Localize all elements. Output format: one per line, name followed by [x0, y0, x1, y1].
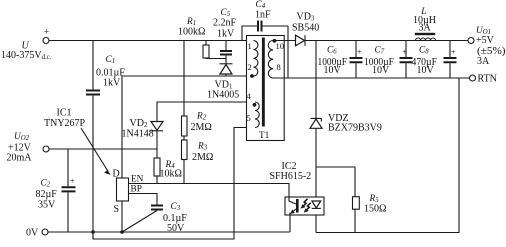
node S/C3 junction	[120, 230, 124, 234]
terminal RTN	[470, 74, 497, 85]
inductor L	[413, 7, 436, 41]
svg-text:+5V: +5V	[476, 35, 495, 46]
terminal U input +	[1, 28, 52, 62]
IC IC1 TNY267P	[44, 108, 144, 233]
wire primary top rail	[49, 40, 254, 42]
optocoupler IC2 SFH615-2	[270, 161, 325, 232]
capacitor C3	[122, 202, 187, 234]
resistor R4	[154, 158, 182, 184]
svg-text:100kΩ: 100kΩ	[178, 27, 205, 38]
svg-text:10V: 10V	[324, 65, 342, 76]
wire secondary bottom loop	[316, 78, 459, 233]
capacitor C4	[242, 0, 288, 78]
wire secondary top	[273, 40, 468, 42]
svg-text:10kΩ: 10kΩ	[160, 169, 182, 180]
terminal UO2 +12V	[7, 132, 50, 164]
svg-text:8: 8	[277, 62, 281, 72]
diode VD2	[122, 118, 164, 158]
svg-text:+: +	[44, 28, 49, 38]
svg-text:82µF: 82µF	[36, 189, 58, 200]
svg-text:2.2nF: 2.2nF	[213, 18, 237, 29]
svg-text:3A: 3A	[419, 23, 432, 34]
diode VD3	[292, 12, 319, 46]
diode VD1	[207, 64, 239, 101]
capacitor C8	[412, 41, 457, 79]
svg-text:SB540: SB540	[292, 23, 319, 34]
svg-text:10: 10	[276, 41, 285, 51]
svg-text:2: 2	[248, 62, 252, 72]
capacitor C5	[213, 8, 237, 64]
wire drain line	[122, 76, 254, 178]
svg-text:D: D	[113, 168, 120, 179]
svg-text:+: +	[402, 47, 407, 57]
wire VDZ to R5	[316, 167, 355, 197]
terminal UO1 +5V	[468, 26, 506, 67]
wire bias pin4 line	[157, 102, 255, 122]
svg-text:RTN: RTN	[478, 74, 497, 85]
capacitor C2	[36, 149, 76, 232]
svg-text:S: S	[114, 204, 120, 215]
svg-text:2MΩ: 2MΩ	[192, 152, 213, 163]
svg-text:1kV: 1kV	[217, 29, 235, 40]
svg-text:2MΩ: 2MΩ	[191, 122, 212, 133]
resistor R5	[353, 194, 387, 233]
node C1/loop junction	[91, 230, 95, 234]
svg-text:20mA: 20mA	[7, 153, 33, 164]
svg-text:3A: 3A	[477, 56, 490, 67]
svg-text:T1: T1	[259, 131, 270, 141]
zener VDZ	[310, 41, 382, 233]
wire +12V rail	[49, 148, 157, 150]
svg-text:SFH615-2: SFH615-2	[270, 171, 312, 182]
svg-text:150Ω: 150Ω	[364, 204, 386, 215]
svg-text:IC1: IC1	[57, 108, 72, 119]
wire EN line	[129, 184, 290, 198]
transformer T1	[247, 36, 285, 142]
svg-text:+: +	[451, 47, 456, 57]
resistor R1	[178, 17, 226, 59]
capacitor C1	[86, 41, 125, 240]
wire RTN rail	[273, 77, 470, 79]
svg-text:5: 5	[247, 113, 251, 123]
wire 0V rail	[48, 231, 290, 233]
svg-text:10V: 10V	[372, 65, 390, 76]
svg-text:0V: 0V	[26, 228, 39, 239]
svg-text:1kV: 1kV	[103, 78, 121, 89]
svg-text:TNY267P: TNY267P	[44, 118, 86, 129]
svg-text:BZX79B3V9: BZX79B3V9	[328, 123, 382, 134]
svg-text:1N4148: 1N4148	[122, 129, 154, 140]
svg-text:1: 1	[248, 41, 252, 51]
svg-text:+: +	[357, 47, 362, 57]
terminal 0V	[26, 228, 48, 239]
resistors R2 R3	[182, 41, 214, 184]
svg-text:10V: 10V	[417, 65, 435, 76]
capacitor C7	[364, 41, 413, 79]
wire BP line	[129, 194, 158, 206]
svg-text:1nF: 1nF	[255, 10, 271, 21]
svg-text:+: +	[70, 176, 75, 186]
svg-text:35V: 35V	[38, 200, 56, 211]
capacitor C6	[318, 41, 363, 79]
svg-text:1N4005: 1N4005	[207, 90, 239, 101]
wire pin5 return loop	[93, 128, 255, 240]
